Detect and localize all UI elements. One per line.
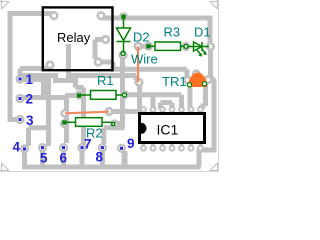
svg-text:1: 1 [26,72,34,87]
wire trace: staircase branch down to node 4 [29,78,51,146]
wire trace: R1 right pad to IC pins 2 and 5 [125,95,182,109]
node 3 pad [15,115,24,124]
svg-text:D1: D1 [194,25,211,40]
wire trace: relay NC pad exit right and long trace to TR1 base [98,62,187,77]
node 1 pad [15,74,24,83]
svg-text:IC1: IC1 [157,122,179,138]
node 5 pad [38,143,47,152]
R3 right terminal [184,44,188,48]
pad wire link 1 bottom [134,78,143,87]
pad D2 anode [119,12,128,21]
resistor R3 [148,42,184,50]
pad wire link 1 top [133,42,142,51]
pad wire link 2 right [104,107,113,116]
pad D2 cathode [118,50,127,59]
svg-text:9: 9 [127,136,135,151]
board corner mark top-right [210,0,219,9]
pad relay NO mid-right [101,35,110,44]
pad R3 right / D1 anode [181,42,190,51]
resistor R2 [65,118,112,127]
node 8 pad [98,143,107,152]
node 2 pad [15,94,24,103]
board corner mark top-left [0,0,9,9]
pad R3 left [144,42,153,51]
wire trace: relay NO pad stub and drop to relay NC pad [95,40,103,60]
wire trace: center column D2 cathode through R1 right, elbow to node 8 [104,57,125,144]
board corner mark bottom-right [210,163,219,172]
R2 right terminal [111,122,115,126]
transistor TR1 dome [188,73,207,88]
node 9 pad [117,144,126,153]
pad R1 right [120,90,129,99]
IC1 pin pads bottom row [140,142,204,152]
pad R2 right [110,119,119,128]
pad TR1 emitter (middle, under dome) [192,69,201,78]
board corner mark bottom-left [0,163,9,172]
svg-text:4: 4 [13,140,21,155]
wire trace: right vertical rail from D1 cathode pad down to IC pin 14 [201,47,215,151]
node 4 pad [20,144,29,153]
diode D2 [117,17,131,52]
IC1 body fill [140,114,205,143]
wire trace: vertical joining R1 left, wire link left, R2 left, node 6 [65,96,79,144]
wire trace: left vertical rail from relay pin to node 3 [10,14,54,120]
svg-text:TR1: TR1 [162,74,187,89]
IC1 pin pads top row [140,106,204,115]
resistor R1 [79,91,123,100]
IC1 outline [140,114,205,143]
R3 left terminal [146,44,150,48]
wire trace: R2 right pad elbow into center column [114,124,121,128]
pad relay common bottom-right [94,57,103,66]
svg-text:8: 8 [96,150,104,165]
R2 left terminal [62,120,66,124]
wire trace: wire1 bottom pad drop to IC pin 1 feed [137,83,142,112]
svg-text:Wire: Wire [131,52,158,67]
wire trace: node 9 riser to ground bus [122,151,128,167]
svg-text:Relay: Relay [57,30,91,45]
svg-text:R1: R1 [97,73,114,88]
D2 anode terminal [121,15,125,19]
pad wire link 2 left [60,109,69,118]
pad TR1 base [183,75,192,84]
svg-text:6: 6 [60,151,68,166]
pad relay coil bottom-left [45,60,54,69]
pad R1 left [74,90,83,99]
wire trace: bottom ground bus with risers to nodes 4-9 [22,149,201,167]
svg-text:2: 2 [26,92,34,107]
svg-text:D2: D2 [133,30,150,45]
IC1 pin-1 notch [141,123,147,134]
wire trace: wire link top pad to R3 left pad [138,44,148,49]
R1 right terminal [123,93,127,97]
pad relay coil top-right [96,11,105,20]
wire trace: relay interior drop and long horizontal to wire link bottom pad [66,44,136,80]
wire trace: staircase from node 1 area under R1 label to center column [22,76,84,146]
R1 left terminal [77,93,81,97]
wire trace: TR1 right pin elbow to IC pin 7 [201,84,206,109]
relay body fill [43,7,113,70]
wire trace: node 1/node 2 staircase to wire link pad [20,80,67,98]
wire link W2 horizontal [65,112,109,114]
pad relay coil top-left [49,11,58,20]
pad TR1 collector [204,75,213,84]
node 7 pad [77,143,86,152]
svg-text:7: 7 [84,137,92,152]
wire trace: TR1 left pin drop to IC pin 6 [188,85,193,109]
wire trace: node 1 riser to relay coil pad [20,69,47,80]
pad R2 left [60,119,69,128]
wire trace: top bus from relay pin via D2 pad to right side [101,18,210,46]
D2 cathode terminal [121,52,125,56]
relay U1 outline [43,7,113,70]
svg-text:R3: R3 [164,25,181,40]
wire trace: wire2 right pad to IC pin 1 [109,109,144,114]
pad D1 cathode [206,42,215,51]
wire link W1 vertical [137,46,139,82]
node 6 pad [59,143,68,152]
svg-text:5: 5 [40,151,48,166]
TR1 collector pin circle [202,82,206,86]
svg-text:3: 3 [26,113,34,128]
LED D1 [188,42,209,54]
wire trace: IC pin 3 to pin 4 bridge [161,103,173,110]
window frame edge bottom [0,171,219,172]
window frame edge right [218,0,219,172]
D1 LED arrow heads [198,53,202,57]
TR1 emitter pin circle [187,83,191,87]
